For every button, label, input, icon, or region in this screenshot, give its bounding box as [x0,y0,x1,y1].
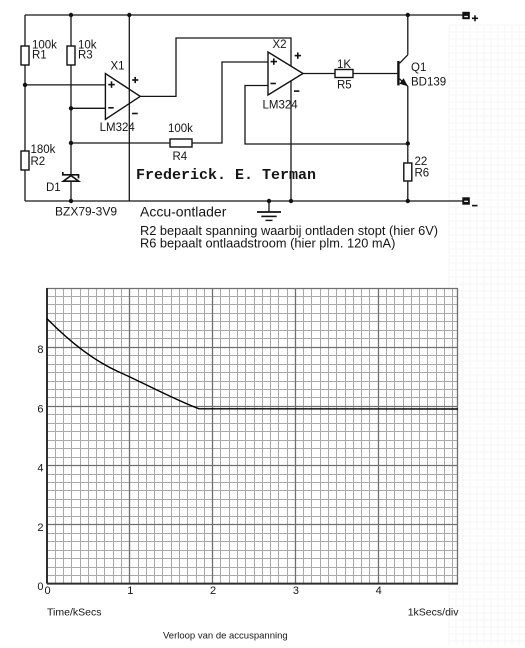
svg-text:Accu-ontlader: Accu-ontlader [140,203,227,219]
svg-text:4: 4 [376,585,382,597]
svg-text:2: 2 [37,522,43,534]
resistor R3 body [67,46,75,65]
svg-text:LM324: LM324 [100,122,136,134]
transistor Q1 base bar [397,61,399,85]
graph y axis [46,288,48,584]
svg-text:Verloop van de accuspanning: Verloop van de accuspanning [163,630,288,641]
wire X1 noninverting input [25,84,105,86]
wire bottom negative rail [25,200,463,202]
svg-text:X2: X2 [273,39,287,51]
op-amp X2 noninverting pin mark [271,58,277,64]
svg-text:D1: D1 [46,182,61,194]
positive terminal plus mark [472,15,478,21]
svg-text:100k: 100k [168,123,193,135]
svg-text:1: 1 [127,585,133,597]
wire X2 inverting input feedback from R6 node [245,86,408,145]
wire top supply rail [25,14,463,16]
svg-text:R6: R6 [415,168,430,180]
svg-text:4: 4 [37,463,43,475]
svg-text:0: 0 [44,585,50,597]
battery voltage curve [47,319,458,409]
op-amp X1 positive supply mark [132,77,138,83]
op-amp U X2 body [268,52,303,95]
graph x axis labels [44,585,381,597]
wire X1 output to X2 supply column [140,38,291,201]
svg-text:1K: 1K [337,59,351,71]
junction R3/D1 reference node [69,106,73,110]
op-amp X1 inverting pin mark [108,107,113,109]
junction R1/R2 divider node [23,83,27,87]
wire R3/D1 branch [70,15,72,201]
svg-text:8: 8 [37,344,43,356]
svg-text:R4: R4 [173,151,188,163]
negative battery terminal [462,197,470,204]
wire left branch R1/R2 [24,15,26,201]
wire Q1 collector to top rail [407,15,409,55]
graph x axis [47,583,458,585]
resistor R6 body [404,163,412,181]
transistor Q1 emitter arrowhead [399,78,408,86]
op-amp U X1 body [105,74,140,120]
ground symbol [257,201,281,220]
svg-text:LM324: LM324 [263,100,299,112]
svg-text:X1: X1 [111,61,125,73]
svg-text:22: 22 [415,156,428,168]
svg-text:Time/kSecs: Time/kSecs [47,607,101,619]
resistor R1 body [21,46,29,65]
junction ground bottom rail [267,199,271,203]
op-amp X1 supply column wire [128,15,130,201]
svg-text:1kSecs/div: 1kSecs/div [408,607,460,619]
transistor Q1 emitter stroke [400,79,408,86]
svg-text:2: 2 [210,585,216,597]
junction R6 bottom rail [406,199,410,203]
svg-text:Q1: Q1 [411,62,426,74]
wire X1 inverting input [71,107,105,109]
svg-text:R5: R5 [337,79,352,91]
op-amp X1 negative supply mark [132,113,138,115]
junction R3 top rail [69,13,73,17]
junction X1 supply top rail [127,13,131,17]
op-amp X2 positive supply mark [295,52,301,58]
svg-text:6: 6 [37,403,43,415]
junction R4 tap node [69,141,73,145]
svg-text:180k: 180k [31,144,56,156]
negative terminal minus mark [472,205,478,207]
op-amp X2 negative supply mark [294,90,299,92]
svg-text:3: 3 [293,585,299,597]
zener diode D1 cathode bar with zener tabs [62,172,79,178]
svg-text:R6 bepaalt ontlaadstroom (hier: R6 bepaalt ontlaadstroom (hier plm. 120 … [140,235,395,250]
junction Q1 collector top rail [406,13,410,17]
graph y axis labels [37,344,43,593]
resistor R4 body [170,139,192,147]
wire Q1 emitter to R6 to bottom rail [407,86,409,201]
junction X2 supply bottom rail [289,199,293,203]
positive battery terminal [462,12,470,19]
svg-text:0: 0 [37,581,43,593]
svg-text:R1: R1 [32,49,47,61]
svg-text:BD139: BD139 [411,76,446,88]
zener diode D1 anode triangle [63,176,78,182]
svg-text:BZX79-3V9: BZX79-3V9 [55,205,117,219]
svg-text:Frederick. E. Terman: Frederick. E. Terman [136,167,316,184]
resistor R5 body [335,70,353,78]
graph major grid [47,288,458,584]
junction D1 bottom rail [69,199,73,203]
transistor Q1 collector stroke [400,55,408,64]
resistor R2 body [21,151,29,170]
op-amp X1 noninverting pin mark [108,81,114,87]
junction Q1 emitter sense node [406,141,410,145]
graph minor grid [47,288,458,584]
svg-text:R2: R2 [31,156,46,168]
svg-text:R3: R3 [78,49,93,61]
op-amp X2 inverting pin mark [271,83,276,85]
wire X2 output to R5 to Q1 base [303,73,397,75]
wire R4 to X2 noninverting input [71,62,268,143]
